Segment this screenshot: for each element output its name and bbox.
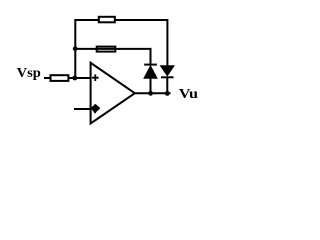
wire: op-amp output to Vu bbox=[135, 92, 171, 94]
junction node B (feedback bus / R2 branch) bbox=[73, 46, 78, 51]
svg-text:Vu: Vu bbox=[179, 87, 198, 102]
diode D2 cathode bar bbox=[161, 76, 174, 78]
svg-text:Vsp: Vsp bbox=[17, 66, 41, 81]
diode D1 cathode bar bbox=[144, 64, 157, 66]
resistor R3 (input resistor) bbox=[51, 75, 69, 81]
wire: inverting input stub bbox=[74, 108, 91, 110]
wire: top feedback loop from node A up over to D2 cathode bbox=[75, 20, 167, 78]
resistor R2 (second feedback resistor, wire visible through body) bbox=[97, 47, 116, 52]
junction node A (R3 / feedback bus / + input) bbox=[72, 76, 77, 81]
wire: D1 anode to output node bbox=[150, 78, 152, 93]
op-amp U1 plus (+) input marker bbox=[92, 74, 99, 81]
resistor R1 (top feedback resistor) bbox=[99, 17, 115, 23]
op-amp U1 minus input marker (filled diamond) bbox=[92, 105, 99, 113]
wire: D2 cathode bar to output node bbox=[166, 77, 168, 93]
wire: second feedback branch from node B right and down to D1 cathode bbox=[75, 49, 150, 65]
wire: Vsp input lead through R3 to op-amp non-inverting input bbox=[44, 77, 91, 79]
diode D1 (points up) bbox=[144, 66, 157, 79]
op-amp U1 body bbox=[91, 63, 135, 124]
diode D2 (points down) bbox=[161, 66, 175, 76]
junction node: D2 at output bbox=[165, 91, 170, 96]
junction node: D1 at output bbox=[148, 91, 153, 96]
